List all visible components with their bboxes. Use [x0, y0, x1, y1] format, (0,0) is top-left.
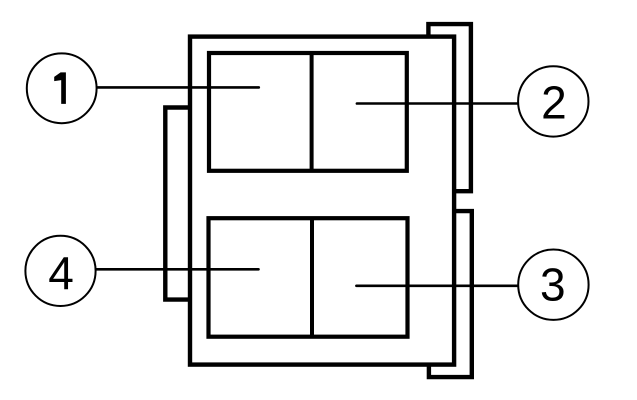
- callout circle 4: [25, 236, 95, 306]
- bottom-right bracket tab: [429, 211, 472, 377]
- leader line 3: [356, 284, 518, 287]
- relay box top: [209, 53, 407, 171]
- svg-text:2: 2: [541, 76, 567, 128]
- relay box bottom: [209, 218, 408, 337]
- divider top box: [310, 53, 314, 171]
- callout circle 3: [518, 250, 588, 320]
- label 1: [54, 72, 66, 104]
- leader line 1: [97, 86, 259, 89]
- svg-text:3: 3: [540, 258, 566, 310]
- left side tab: [165, 108, 190, 300]
- svg-text:4: 4: [48, 247, 74, 299]
- outer housing: [190, 37, 454, 365]
- divider bottom box: [310, 218, 314, 337]
- leader line 2: [357, 102, 518, 105]
- callout circle 1: [27, 53, 97, 123]
- callout circle 2: [518, 66, 588, 136]
- leader line 4: [96, 268, 259, 271]
- top-right bracket tab: [428, 24, 471, 191]
